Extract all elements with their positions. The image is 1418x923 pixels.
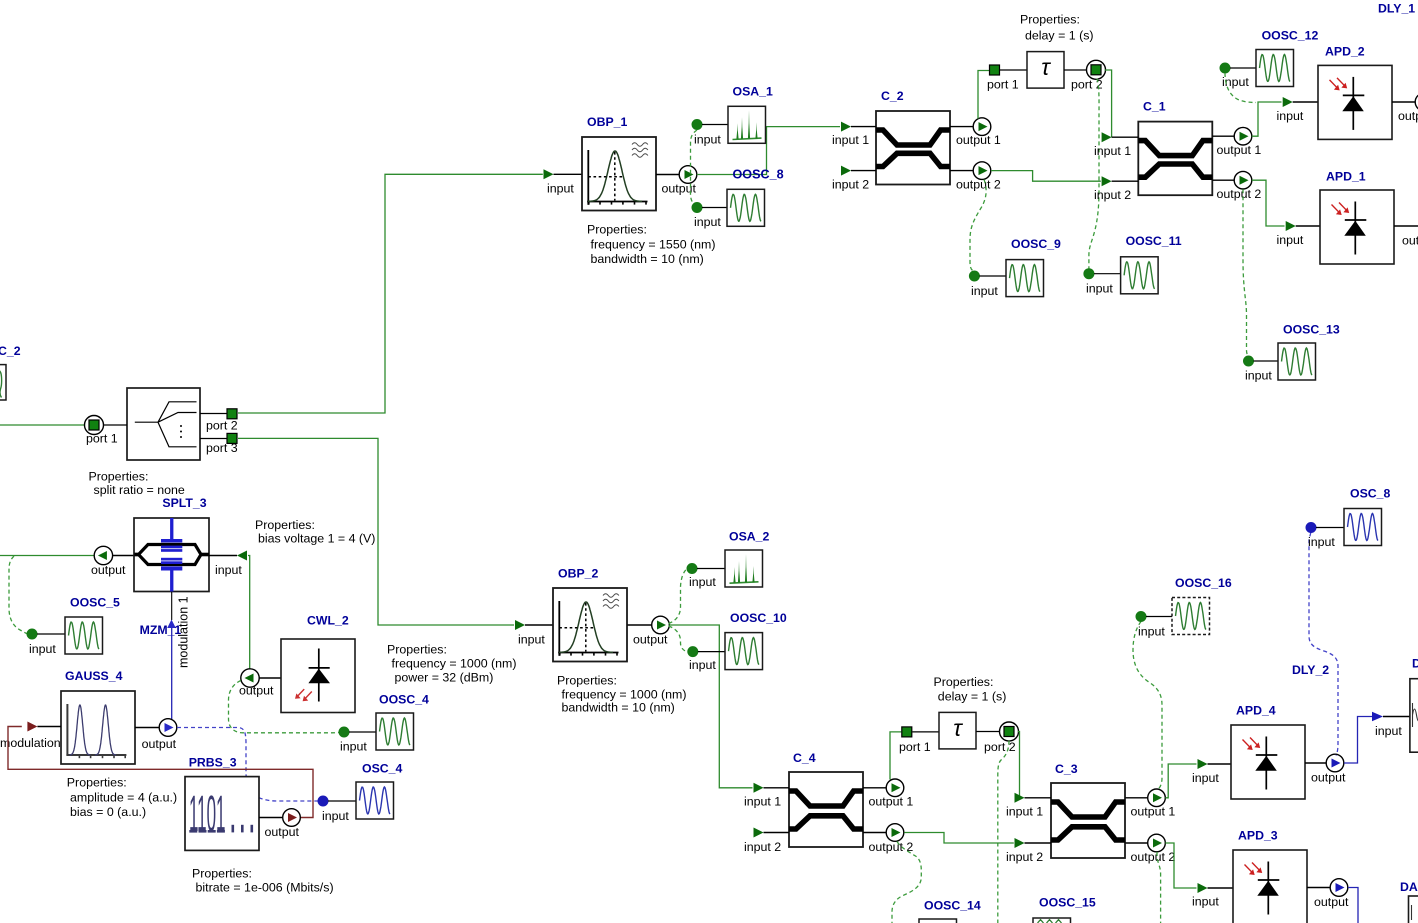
svg-text:1101: 1101: [189, 785, 226, 842]
svg-text:output 1: output 1: [1217, 143, 1262, 157]
svg-text:C_2: C_2: [0, 344, 21, 358]
svg-text:APD_1: APD_1: [1326, 169, 1366, 183]
svg-text:bitrate = 1e-006 (Mbits/s): bitrate = 1e-006 (Mbits/s): [196, 881, 334, 895]
svg-text:MZM_1: MZM_1: [140, 623, 182, 637]
svg-text:OOSC_10: OOSC_10: [730, 611, 787, 625]
svg-text:input 1: input 1: [1094, 144, 1131, 158]
svg-text:input 2: input 2: [744, 840, 781, 854]
svg-text:APD_3: APD_3: [1238, 829, 1278, 843]
svg-text:output: output: [633, 632, 668, 646]
svg-text:modulation 1: modulation 1: [177, 596, 191, 668]
svg-text:input: input: [689, 658, 716, 672]
svg-text:input 2: input 2: [1006, 850, 1043, 864]
svg-text:Properties:: Properties:: [67, 776, 127, 790]
svg-text:port 1: port 1: [987, 77, 1019, 91]
svg-text:outp: outp: [1398, 109, 1418, 123]
svg-text:input: input: [1277, 109, 1304, 123]
svg-text:output: output: [662, 181, 697, 195]
svg-text:OBP_2: OBP_2: [558, 567, 598, 581]
svg-text:port 2: port 2: [984, 740, 1016, 754]
svg-text:input: input: [1245, 369, 1272, 383]
svg-text:input: input: [518, 632, 545, 646]
svg-text:out: out: [1402, 233, 1418, 247]
svg-text:Properties:: Properties:: [557, 674, 617, 688]
svg-text:τ: τ: [1041, 54, 1051, 80]
svg-text:C_4: C_4: [793, 751, 816, 765]
svg-text:Properties:: Properties:: [192, 867, 252, 881]
svg-text:Properties:: Properties:: [89, 470, 149, 484]
svg-text:input: input: [689, 575, 716, 589]
svg-text:output 1: output 1: [1131, 805, 1176, 819]
svg-text:C_3: C_3: [1055, 762, 1078, 776]
svg-text:OOSC_12: OOSC_12: [1262, 29, 1319, 43]
svg-text:C_1: C_1: [1143, 99, 1166, 113]
svg-text:output 2: output 2: [869, 840, 914, 854]
svg-text:DS: DS: [1412, 657, 1418, 671]
svg-text:input 1: input 1: [1006, 805, 1043, 819]
svg-text:input: input: [340, 740, 367, 754]
svg-text:input 2: input 2: [832, 177, 869, 191]
svg-text:OBP_1: OBP_1: [587, 115, 627, 129]
svg-text:OOSC_4: OOSC_4: [379, 693, 429, 707]
svg-text:output 2: output 2: [1131, 850, 1176, 864]
svg-text:output: output: [142, 737, 177, 751]
svg-text:input: input: [1138, 625, 1165, 639]
svg-text:Properties:: Properties:: [255, 518, 315, 532]
svg-text:OSA_2: OSA_2: [729, 530, 769, 544]
svg-text:OOSC_8: OOSC_8: [733, 168, 784, 182]
svg-text:OOSC_13: OOSC_13: [1283, 323, 1340, 337]
svg-text:bandwidth = 10 (nm): bandwidth = 10 (nm): [562, 701, 675, 715]
svg-text:output: output: [265, 825, 300, 839]
svg-text:input: input: [1192, 771, 1219, 785]
svg-text:frequency = 1000 (nm): frequency = 1000 (nm): [562, 687, 687, 701]
svg-text:PRBS_3: PRBS_3: [189, 756, 237, 770]
svg-text:OOSC_15: OOSC_15: [1039, 896, 1096, 910]
svg-text:Properties:: Properties:: [387, 643, 447, 657]
svg-text:input: input: [1308, 535, 1335, 549]
svg-text:delay = 1 (s): delay = 1 (s): [1025, 29, 1094, 43]
svg-text:output: output: [239, 684, 274, 698]
svg-text:APD_4: APD_4: [1236, 704, 1276, 718]
svg-text:output 1: output 1: [956, 133, 1001, 147]
svg-text:Properties:: Properties:: [587, 223, 647, 237]
svg-text:port 1: port 1: [899, 740, 931, 754]
svg-text:amplitude = 4 (a.u.): amplitude = 4 (a.u.): [70, 791, 177, 805]
svg-text:bias = 0 (a.u.): bias = 0 (a.u.): [70, 805, 146, 819]
svg-text:DLY_1: DLY_1: [1378, 2, 1415, 16]
svg-text:output: output: [91, 563, 126, 577]
svg-text:delay = 1 (s): delay = 1 (s): [938, 690, 1007, 704]
svg-text:Properties:: Properties:: [934, 675, 994, 689]
svg-text:bandwidth = 10 (nm): bandwidth = 10 (nm): [591, 252, 704, 266]
svg-text:port 3: port 3: [206, 441, 238, 455]
svg-text:APD_2: APD_2: [1325, 45, 1365, 59]
svg-text:OOSC_9: OOSC_9: [1011, 237, 1061, 251]
svg-text:OOSC_14: OOSC_14: [924, 899, 981, 913]
svg-text:OOSC_11: OOSC_11: [1126, 234, 1182, 248]
svg-text:input: input: [215, 563, 242, 577]
svg-text:input: input: [547, 181, 574, 195]
svg-text:OOSC_5: OOSC_5: [70, 596, 120, 610]
svg-text:Properties:: Properties:: [1020, 13, 1080, 27]
svg-text:input 1: input 1: [832, 133, 869, 147]
svg-text:input 2: input 2: [1094, 188, 1131, 202]
svg-text:frequency = 1000 (nm): frequency = 1000 (nm): [392, 657, 517, 671]
svg-text:C_2: C_2: [881, 89, 904, 103]
svg-text:OOSC_16: OOSC_16: [1175, 576, 1232, 590]
svg-text:DLY_2: DLY_2: [1292, 663, 1329, 677]
svg-text:output 1: output 1: [869, 795, 914, 809]
svg-text:frequency = 1550 (nm): frequency = 1550 (nm): [591, 238, 716, 252]
svg-text:port 1: port 1: [86, 432, 118, 446]
svg-text:input: input: [694, 132, 721, 146]
svg-text:output 2: output 2: [1217, 187, 1262, 201]
svg-text:DA: DA: [1400, 880, 1418, 894]
svg-text:OSC_8: OSC_8: [1350, 487, 1390, 501]
svg-text:input: input: [1192, 895, 1219, 909]
svg-text:input 1: input 1: [744, 795, 781, 809]
svg-text:input: input: [29, 642, 56, 656]
svg-text:bias voltage 1 = 4 (V): bias voltage 1 = 4 (V): [258, 532, 375, 546]
svg-text:input: input: [1277, 233, 1304, 247]
svg-text:input: input: [1086, 282, 1113, 296]
svg-text:input: input: [971, 284, 998, 298]
svg-text:OSA_1: OSA_1: [733, 85, 773, 99]
svg-text:port 2: port 2: [206, 419, 238, 433]
svg-text:output: output: [1311, 771, 1346, 785]
svg-text:input: input: [322, 809, 349, 823]
svg-text:output: output: [1314, 895, 1349, 909]
svg-text:GAUSS_4: GAUSS_4: [65, 669, 123, 683]
svg-text:power = 32 (dBm): power = 32 (dBm): [395, 671, 494, 685]
svg-text:output 2: output 2: [956, 177, 1001, 191]
svg-text:τ: τ: [953, 715, 963, 741]
svg-text:CWL_2: CWL_2: [307, 614, 349, 628]
svg-text:OSC_4: OSC_4: [362, 762, 402, 776]
svg-text:modulation: modulation: [0, 736, 61, 750]
svg-text:SPLT_3: SPLT_3: [162, 496, 206, 510]
svg-text:input: input: [694, 215, 721, 229]
svg-text:input: input: [1375, 724, 1402, 738]
